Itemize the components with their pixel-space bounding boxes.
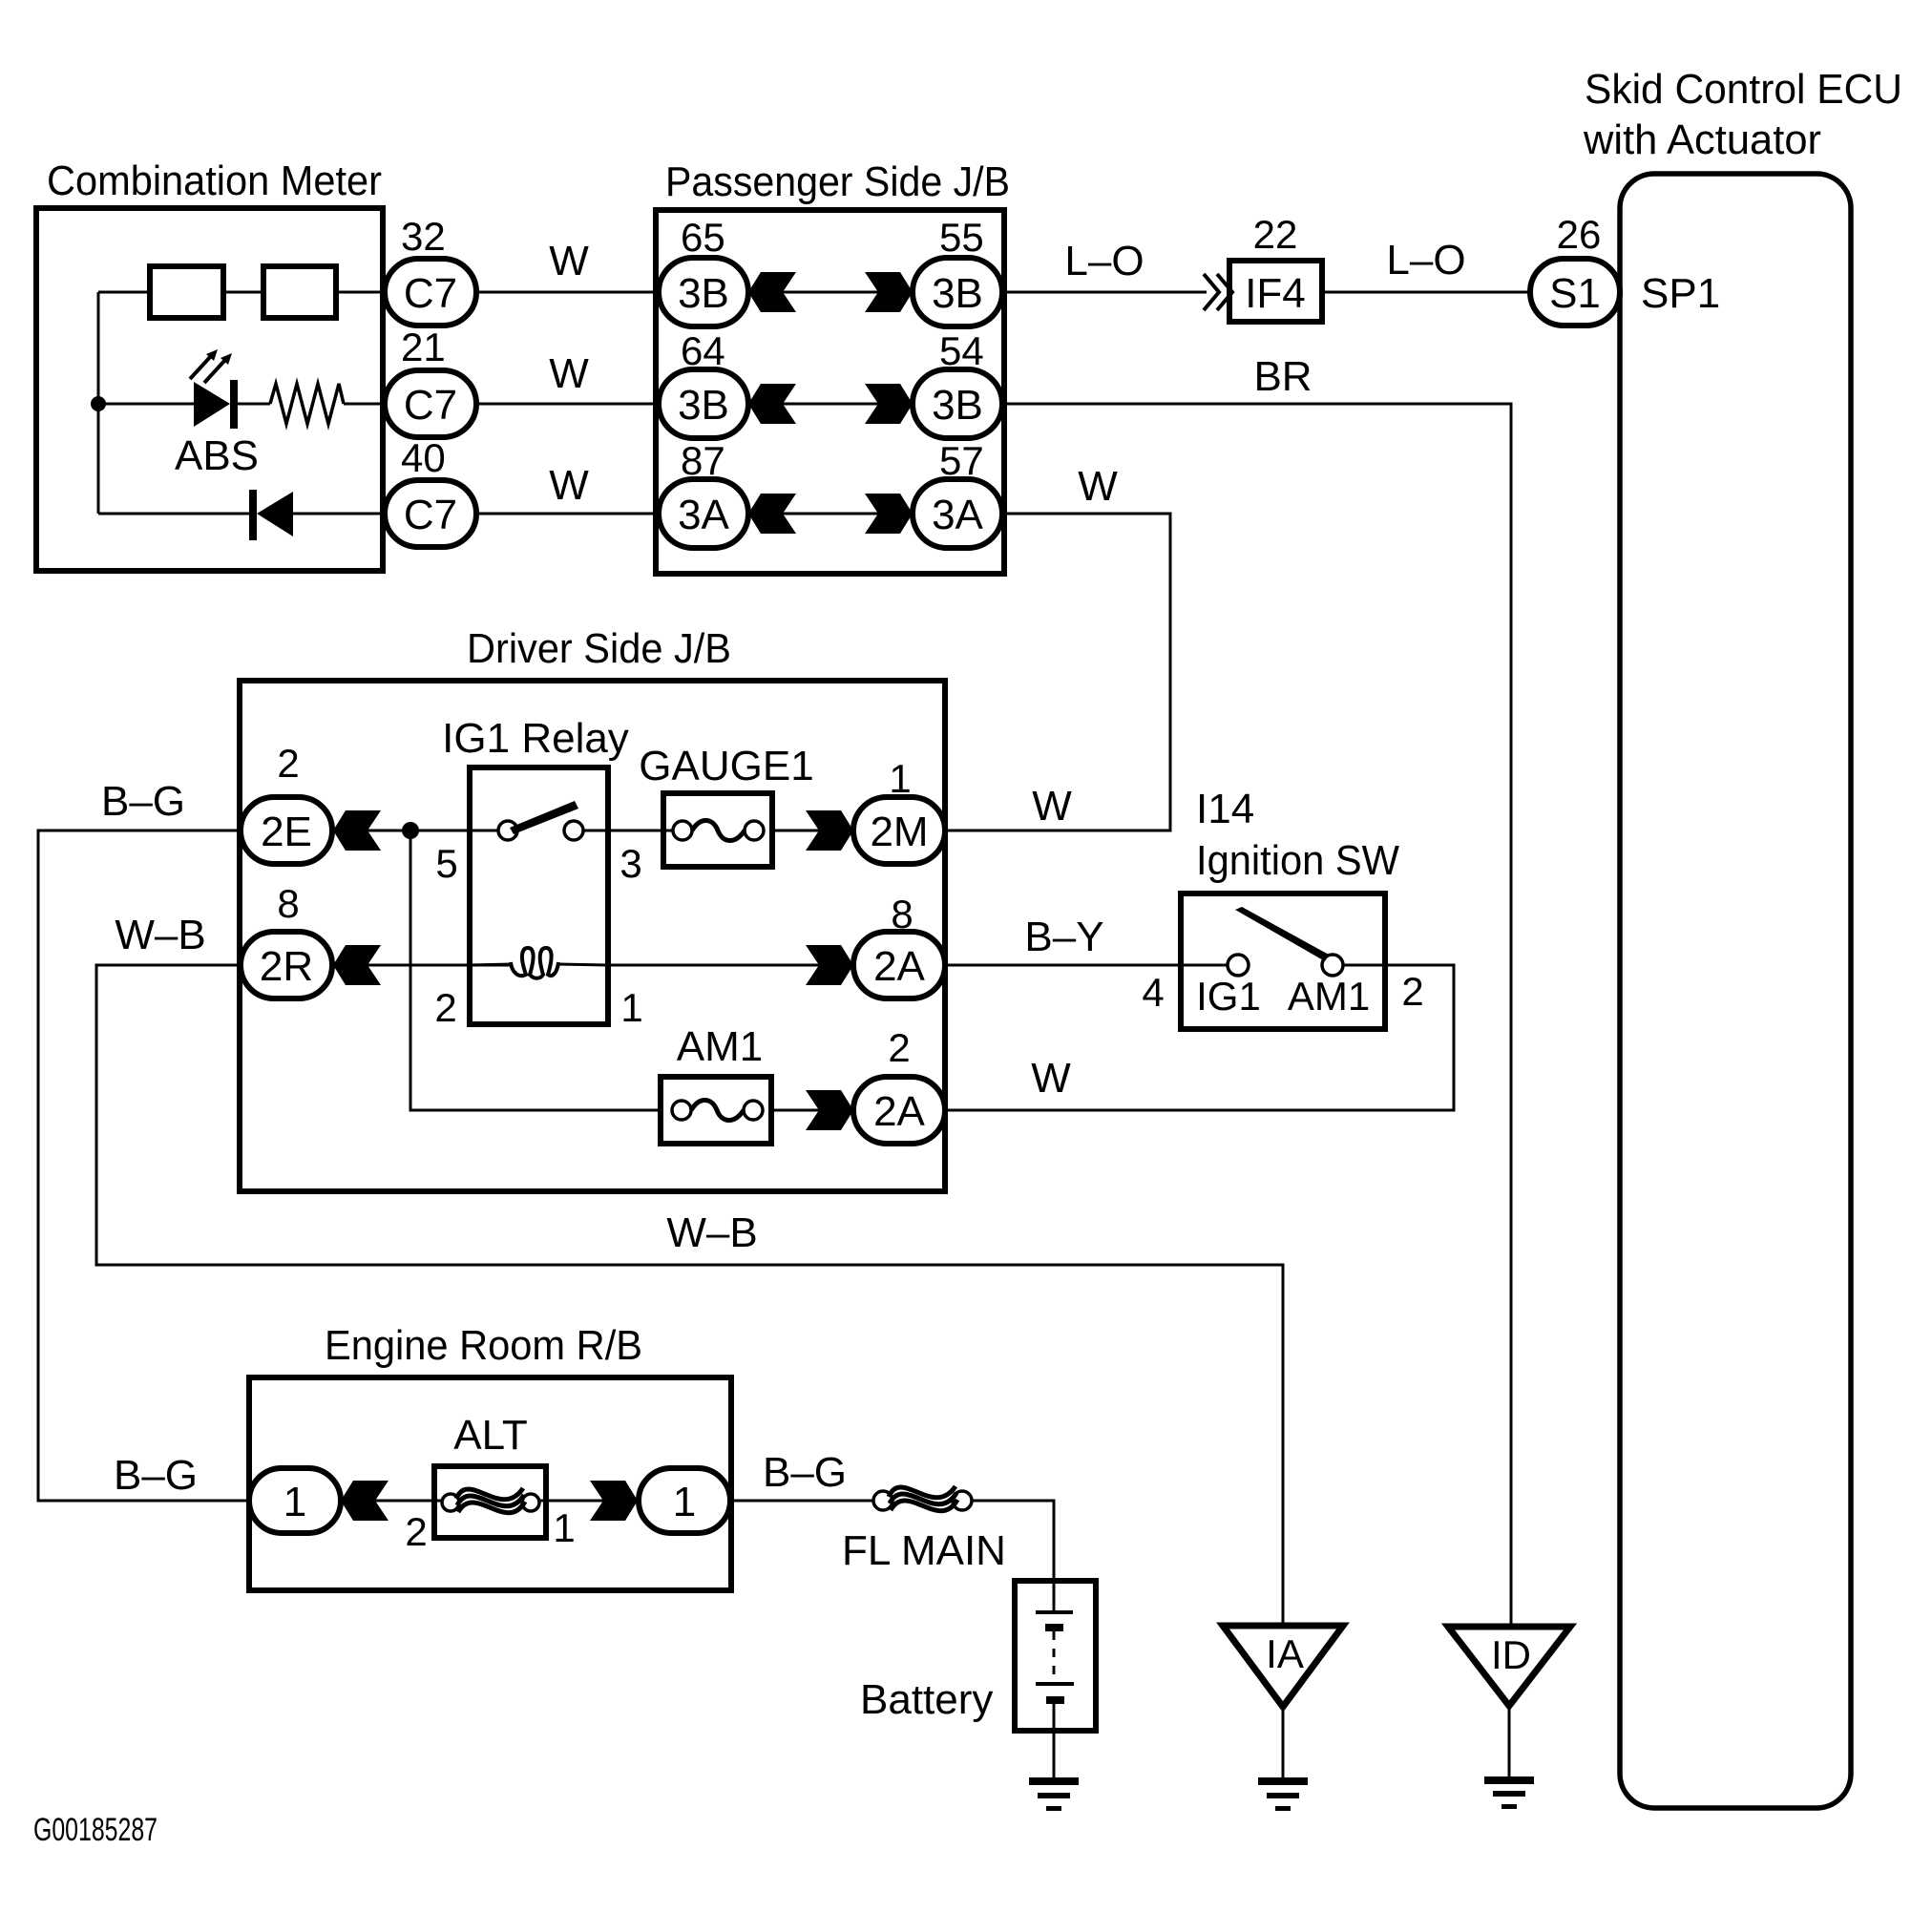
ground below battery bbox=[1029, 1777, 1079, 1811]
svg-text:AM1: AM1 bbox=[677, 1023, 763, 1070]
wire W: C7-40 to 3A-87 bbox=[476, 462, 659, 514]
svg-text:55: 55 bbox=[939, 215, 984, 260]
wire: gauge block 2 to pin 32 bbox=[336, 291, 386, 294]
wire: relay coil pin 1 to 2A-8 bbox=[608, 964, 853, 967]
svg-text:ID: ID bbox=[1491, 1632, 1531, 1677]
fusible link ALT bbox=[434, 1466, 546, 1538]
Driver Side J/B box bbox=[240, 681, 945, 1191]
svg-text:57: 57 bbox=[939, 438, 984, 483]
connector 3A pin 87 bbox=[659, 438, 748, 548]
svg-text:3A: 3A bbox=[932, 492, 983, 538]
svg-text:B–G: B–G bbox=[763, 1449, 847, 1496]
svg-text:ABS: ABS bbox=[175, 432, 259, 479]
wire: row1 inside combination meter bbox=[98, 291, 150, 294]
wire: branch to diode row bbox=[98, 513, 249, 515]
svg-text:B–G: B–G bbox=[101, 778, 185, 825]
connector 1 (left, engine room R/B) bbox=[249, 1468, 341, 1533]
svg-text:3B: 3B bbox=[678, 382, 729, 429]
svg-text:2: 2 bbox=[277, 741, 299, 786]
svg-text:Combination Meter: Combination Meter bbox=[47, 158, 382, 204]
svg-text:1: 1 bbox=[283, 1479, 306, 1525]
connector C7 pin 40 bbox=[385, 435, 476, 547]
diode D2 (cathode left) bbox=[249, 490, 293, 540]
wire W: C7-21 to 3B-64 bbox=[476, 350, 659, 404]
wire: AM1 fuse to 2A-2 bbox=[771, 1109, 853, 1112]
wire B-G: 2E to Engine Room R/B bbox=[38, 778, 250, 1501]
svg-text:C7: C7 bbox=[404, 382, 457, 429]
svg-text:3B: 3B bbox=[932, 382, 983, 429]
wire W: 2A-2 to ignition switch AM1 bbox=[945, 965, 1454, 1110]
connector 3B pin 55 bbox=[913, 215, 1002, 326]
svg-text:W: W bbox=[549, 462, 589, 509]
node: junction dot at relay pin 5 branch bbox=[402, 822, 419, 839]
wire L-O: 3B-55 to splice bbox=[1002, 238, 1207, 292]
ground triangle IA bbox=[1223, 1626, 1343, 1707]
wire: diode to pin 40 bbox=[293, 513, 386, 515]
svg-text:L–O: L–O bbox=[1386, 237, 1465, 284]
fusible link FL MAIN bbox=[842, 1486, 1006, 1574]
wire BR: 3B-54 to ground ID bbox=[1002, 353, 1511, 1626]
svg-text:2R: 2R bbox=[260, 943, 313, 990]
svg-text:W–B: W–B bbox=[115, 912, 205, 958]
svg-text:IG1 Relay: IG1 Relay bbox=[442, 715, 629, 762]
fuse GAUGE1 bbox=[663, 793, 772, 867]
arrow into 3A-87 bbox=[748, 494, 796, 534]
connector S1 pin 26 bbox=[1530, 212, 1620, 326]
wire W: C7-32 to 3B-65 bbox=[476, 238, 659, 292]
svg-text:W–B: W–B bbox=[666, 1209, 757, 1256]
label: Skid Control ECU with Actuator title bbox=[1583, 66, 1902, 163]
wire: ALT link to connector 1 right bbox=[540, 1500, 638, 1503]
wire: 2R to relay coil bbox=[333, 964, 511, 967]
svg-text:Passenger Side J/B: Passenger Side J/B bbox=[665, 158, 1010, 205]
arrow into 3B-65 bbox=[748, 272, 796, 312]
ABS warning LED D1 bbox=[190, 349, 238, 429]
wire: LED to resistor bbox=[238, 403, 270, 406]
ground below IA bbox=[1258, 1777, 1308, 1811]
connector 1 (right, engine room R/B) bbox=[639, 1468, 730, 1533]
svg-text:W: W bbox=[1031, 1055, 1071, 1102]
splice chevrons before IF4 bbox=[1204, 274, 1232, 310]
gauge block 2 bbox=[263, 266, 336, 318]
arrow into 2M bbox=[806, 810, 853, 851]
relay switch contacts bbox=[470, 801, 608, 840]
node: junction dot on ABS lamp branch bbox=[91, 396, 106, 411]
svg-text:1: 1 bbox=[673, 1479, 696, 1525]
svg-text:8: 8 bbox=[891, 892, 913, 936]
fuse IF4 pin 22 bbox=[1229, 212, 1322, 322]
svg-text:32: 32 bbox=[401, 214, 446, 259]
svg-text:3: 3 bbox=[619, 841, 641, 886]
svg-text:65: 65 bbox=[681, 215, 725, 260]
svg-text:2A: 2A bbox=[873, 943, 925, 990]
arrow into 3A-57 bbox=[865, 494, 913, 534]
connector 3A pin 57 bbox=[913, 438, 1002, 548]
svg-text:ALT: ALT bbox=[453, 1412, 527, 1459]
svg-text:2: 2 bbox=[888, 1025, 910, 1070]
svg-text:L–O: L–O bbox=[1064, 238, 1144, 284]
wire: IA to ground bbox=[1282, 1707, 1285, 1777]
svg-text:3B: 3B bbox=[678, 270, 729, 317]
svg-text:2A: 2A bbox=[873, 1088, 925, 1135]
arrow into 3B-54 bbox=[865, 384, 913, 424]
wire: row3 inside passenger J/B bbox=[748, 513, 913, 515]
svg-text:I14: I14 bbox=[1196, 786, 1254, 832]
svg-text:S1: S1 bbox=[1549, 270, 1601, 317]
svg-text:40: 40 bbox=[401, 435, 446, 480]
wire B-G: connector 1 to FL MAIN bbox=[730, 1449, 874, 1501]
svg-text:BR: BR bbox=[1253, 353, 1312, 400]
wire: relay pin 3 to GAUGE1 fuse bbox=[608, 830, 673, 832]
connector C7 pin 32 bbox=[385, 214, 476, 326]
fuse AM1 bbox=[661, 1077, 771, 1144]
svg-text:C7: C7 bbox=[404, 270, 457, 317]
wire: row1 inside passenger J/B bbox=[748, 291, 913, 294]
svg-text:B–G: B–G bbox=[114, 1452, 198, 1499]
switch I14 Ignition SW box bbox=[1181, 893, 1385, 1029]
svg-text:3A: 3A bbox=[678, 492, 729, 538]
svg-text:Skid Control ECU: Skid Control ECU bbox=[1585, 66, 1902, 113]
arrow into 3B-64 bbox=[748, 384, 796, 424]
wire: resistor to pin 21 bbox=[344, 403, 386, 406]
svg-text:87: 87 bbox=[681, 438, 725, 483]
svg-text:54: 54 bbox=[939, 328, 984, 373]
connector 3B pin 64 bbox=[659, 328, 748, 438]
wire: connector 1 to ALT fusible link bbox=[341, 1500, 441, 1503]
Combination Meter box bbox=[36, 208, 383, 571]
wire: GAUGE1 to 2M bbox=[772, 830, 853, 832]
svg-text:FL MAIN: FL MAIN bbox=[842, 1527, 1006, 1574]
connector 2A pin 2 bbox=[853, 1025, 945, 1144]
connector 2A pin 8 bbox=[853, 892, 945, 999]
svg-text:W: W bbox=[1078, 463, 1118, 510]
connector 3B pin 54 bbox=[913, 328, 1002, 438]
Skid Control ECU block (U: skid control ECU with actuator) bbox=[1620, 174, 1851, 1808]
arrow into 2A-8 bbox=[806, 945, 853, 985]
connector 2E pin 2 bbox=[241, 741, 332, 864]
svg-text:GAUGE1: GAUGE1 bbox=[639, 743, 813, 789]
svg-text:IG1: IG1 bbox=[1196, 974, 1261, 1019]
svg-text:G00185287: G00185287 bbox=[33, 1812, 157, 1848]
ignition switch contacts and blade bbox=[1228, 907, 1343, 976]
svg-text:W: W bbox=[549, 350, 589, 397]
svg-text:21: 21 bbox=[401, 325, 446, 369]
svg-text:64: 64 bbox=[681, 328, 725, 373]
svg-text:Battery: Battery bbox=[860, 1676, 993, 1723]
svg-text:Engine Room R/B: Engine Room R/B bbox=[325, 1322, 642, 1369]
wire: junction down to AM1 fuse row bbox=[410, 830, 661, 1110]
svg-text:2: 2 bbox=[405, 1509, 427, 1554]
arrow into 2A-2 bbox=[806, 1090, 853, 1130]
gauge block 1 bbox=[150, 266, 223, 318]
svg-text:8: 8 bbox=[277, 881, 299, 926]
resistor R1 (zigzag) bbox=[270, 384, 344, 424]
svg-text:SP1: SP1 bbox=[1641, 270, 1720, 317]
wire: FL MAIN to battery bbox=[972, 1501, 1054, 1582]
wire: link between gauge blocks bbox=[223, 291, 263, 294]
wire: branch to ABS LED bbox=[98, 403, 194, 406]
svg-text:3B: 3B bbox=[932, 270, 983, 317]
wire L-O: IF4 to S1 bbox=[1322, 237, 1530, 292]
wire: internal branch vertical in combination meter bbox=[97, 292, 100, 514]
Passenger Side J/B box bbox=[656, 210, 1004, 574]
svg-text:IF4: IF4 bbox=[1245, 270, 1306, 317]
arrow into 3B-55 bbox=[865, 272, 913, 312]
svg-text:Driver Side J/B: Driver Side J/B bbox=[467, 625, 731, 672]
svg-text:B–Y: B–Y bbox=[1024, 914, 1103, 960]
svg-text:5: 5 bbox=[435, 841, 457, 886]
svg-text:22: 22 bbox=[1253, 212, 1298, 257]
svg-text:W: W bbox=[549, 238, 589, 284]
ground triangle ID bbox=[1448, 1627, 1570, 1706]
ground below ID bbox=[1484, 1776, 1534, 1809]
arrow into connector 1 right bbox=[590, 1481, 638, 1521]
svg-text:2E: 2E bbox=[261, 809, 312, 855]
connector 3B pin 65 bbox=[659, 215, 748, 326]
svg-text:1: 1 bbox=[620, 985, 642, 1030]
svg-text:26: 26 bbox=[1557, 212, 1602, 257]
svg-text:2M: 2M bbox=[870, 809, 928, 855]
wire W-B: 2R to ground IA bbox=[96, 912, 1283, 1626]
arrow into 2E bbox=[333, 810, 381, 851]
battery BT1 bbox=[1015, 1581, 1096, 1777]
svg-text:AM1: AM1 bbox=[1288, 974, 1370, 1019]
connector 2M pin 1 bbox=[853, 756, 945, 864]
wire W: 3A-57 down to 2M row bbox=[945, 463, 1170, 830]
connector C7 pin 21 bbox=[385, 325, 476, 437]
arrow into connector 1 left bbox=[341, 1481, 388, 1521]
wire: ID to ground bbox=[1508, 1706, 1511, 1776]
wire B-Y: 2A-8 to ignition switch IG1 bbox=[945, 914, 1228, 965]
svg-text:C7: C7 bbox=[404, 492, 457, 538]
arrow into 2R bbox=[333, 945, 381, 985]
connector 2R pin 8 bbox=[241, 881, 332, 999]
svg-text:with Actuator: with Actuator bbox=[1583, 116, 1821, 163]
svg-text:IA: IA bbox=[1266, 1631, 1304, 1676]
Engine Room R/B box bbox=[249, 1377, 731, 1590]
svg-text:1: 1 bbox=[889, 756, 911, 801]
svg-text:2: 2 bbox=[1401, 969, 1423, 1014]
relay coil L1 bbox=[470, 948, 608, 978]
svg-text:1: 1 bbox=[553, 1505, 575, 1550]
wire: 2E to relay pin 5 bbox=[333, 830, 470, 832]
svg-text:2: 2 bbox=[434, 985, 456, 1030]
relay IG1 box bbox=[470, 767, 608, 1024]
wire: row2 inside passenger J/B bbox=[748, 403, 913, 406]
svg-text:W: W bbox=[1032, 783, 1072, 830]
svg-text:Ignition SW: Ignition SW bbox=[1196, 837, 1399, 884]
svg-text:4: 4 bbox=[1142, 970, 1164, 1015]
